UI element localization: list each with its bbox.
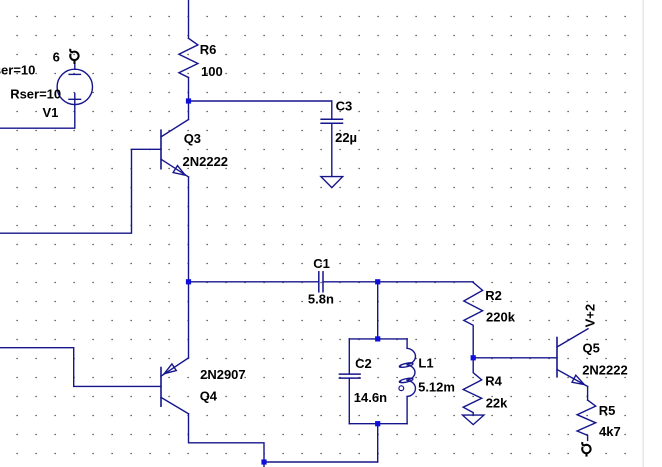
wire top supply into R6 <box>188 0 190 38</box>
wire Q5 emitter to R5 <box>587 386 589 400</box>
wire Q4 collector to bottom rail <box>189 414 265 462</box>
wire bottom rail to tank <box>264 461 378 463</box>
capacitor C3 <box>331 101 333 119</box>
ground below C3 <box>321 177 343 188</box>
wire tank bottom rail <box>349 423 407 425</box>
svg-text:5.8n: 5.8n <box>308 292 334 307</box>
capacitor C2 <box>348 339 350 374</box>
svg-text:Rser=10: Rser=10 <box>10 87 61 102</box>
resistor R4 <box>463 358 482 415</box>
svg-text:220k: 220k <box>486 309 516 324</box>
ground below R4 <box>463 415 484 425</box>
voltage source V1 <box>57 69 92 104</box>
svg-text:6: 6 <box>53 49 60 64</box>
resistor R5 <box>577 400 596 440</box>
svg-text:Q4: Q4 <box>200 389 218 404</box>
wire tank bottom stub down <box>377 424 379 462</box>
capacitor C1 <box>318 272 320 292</box>
junction node tank bottom <box>375 421 380 426</box>
resistor R2 <box>464 282 483 357</box>
svg-text:R5: R5 <box>599 403 616 418</box>
wire tank top rail <box>349 338 407 340</box>
wire C1 to R2 corner <box>323 281 473 283</box>
svg-text:5.12m: 5.12m <box>418 379 455 394</box>
inductor L1 <box>406 339 408 348</box>
junction node tank top <box>375 336 380 341</box>
wire Q4 base from left edge <box>0 348 161 387</box>
svg-text:4k7: 4k7 <box>599 424 621 439</box>
svg-text:V+2: V+2 <box>583 304 598 328</box>
svg-text:C3: C3 <box>336 99 353 114</box>
junction node R6/Q3/C3 <box>186 98 191 103</box>
wire R6 bottom to Q3 collector <box>188 78 190 120</box>
svg-text:100: 100 <box>201 64 223 79</box>
svg-text:R4: R4 <box>485 373 502 388</box>
wire V1 bottom to left edge <box>0 105 75 129</box>
wire Q3 base from left edge <box>0 149 161 233</box>
svg-text:Q3: Q3 <box>184 131 201 146</box>
wire bottom stub off-screen <box>263 462 265 467</box>
wire Q3 emitter down to Q4 emitter <box>188 177 190 358</box>
svg-text:14.6n: 14.6n <box>354 390 387 405</box>
svg-text:R2: R2 <box>485 288 502 303</box>
junction node C1/tank <box>375 279 380 284</box>
wire junction to Q5 base <box>473 357 557 359</box>
svg-text:R6: R6 <box>200 42 217 57</box>
svg-text:V1: V1 <box>43 105 59 120</box>
junction node R2/R4/Q5 base <box>471 355 476 360</box>
transistor Q4 2N2907 (PNP) <box>160 368 162 407</box>
transistor Q5 2N2222 (NPN) <box>556 338 558 377</box>
svg-text:22k: 22k <box>486 395 508 410</box>
svg-text:L1: L1 <box>418 356 433 371</box>
wire junction to C3 <box>189 100 332 102</box>
resistor R6 <box>179 38 198 77</box>
L1 phase dot <box>399 386 404 391</box>
junction node bottom rail <box>261 459 266 464</box>
svg-text:Q5: Q5 <box>583 341 600 356</box>
transistor Q3 2N2222 (NPN) <box>160 130 162 169</box>
svg-text:22µ: 22µ <box>335 130 357 145</box>
node phi label at V1 top <box>70 49 78 64</box>
wire node to C1 <box>189 281 319 283</box>
wire tank column down <box>377 282 379 339</box>
junction node Q3 emitter / C1 <box>186 279 191 284</box>
svg-text:2N2222: 2N2222 <box>183 154 229 169</box>
svg-text:C2: C2 <box>355 356 372 371</box>
svg-text:2N2222: 2N2222 <box>582 363 628 378</box>
svg-text:ser=10: ser=10 <box>0 63 35 78</box>
node phi label at R5 bottom <box>582 442 590 457</box>
svg-text:2N2907: 2N2907 <box>200 367 246 382</box>
svg-text:C1: C1 <box>313 256 330 271</box>
